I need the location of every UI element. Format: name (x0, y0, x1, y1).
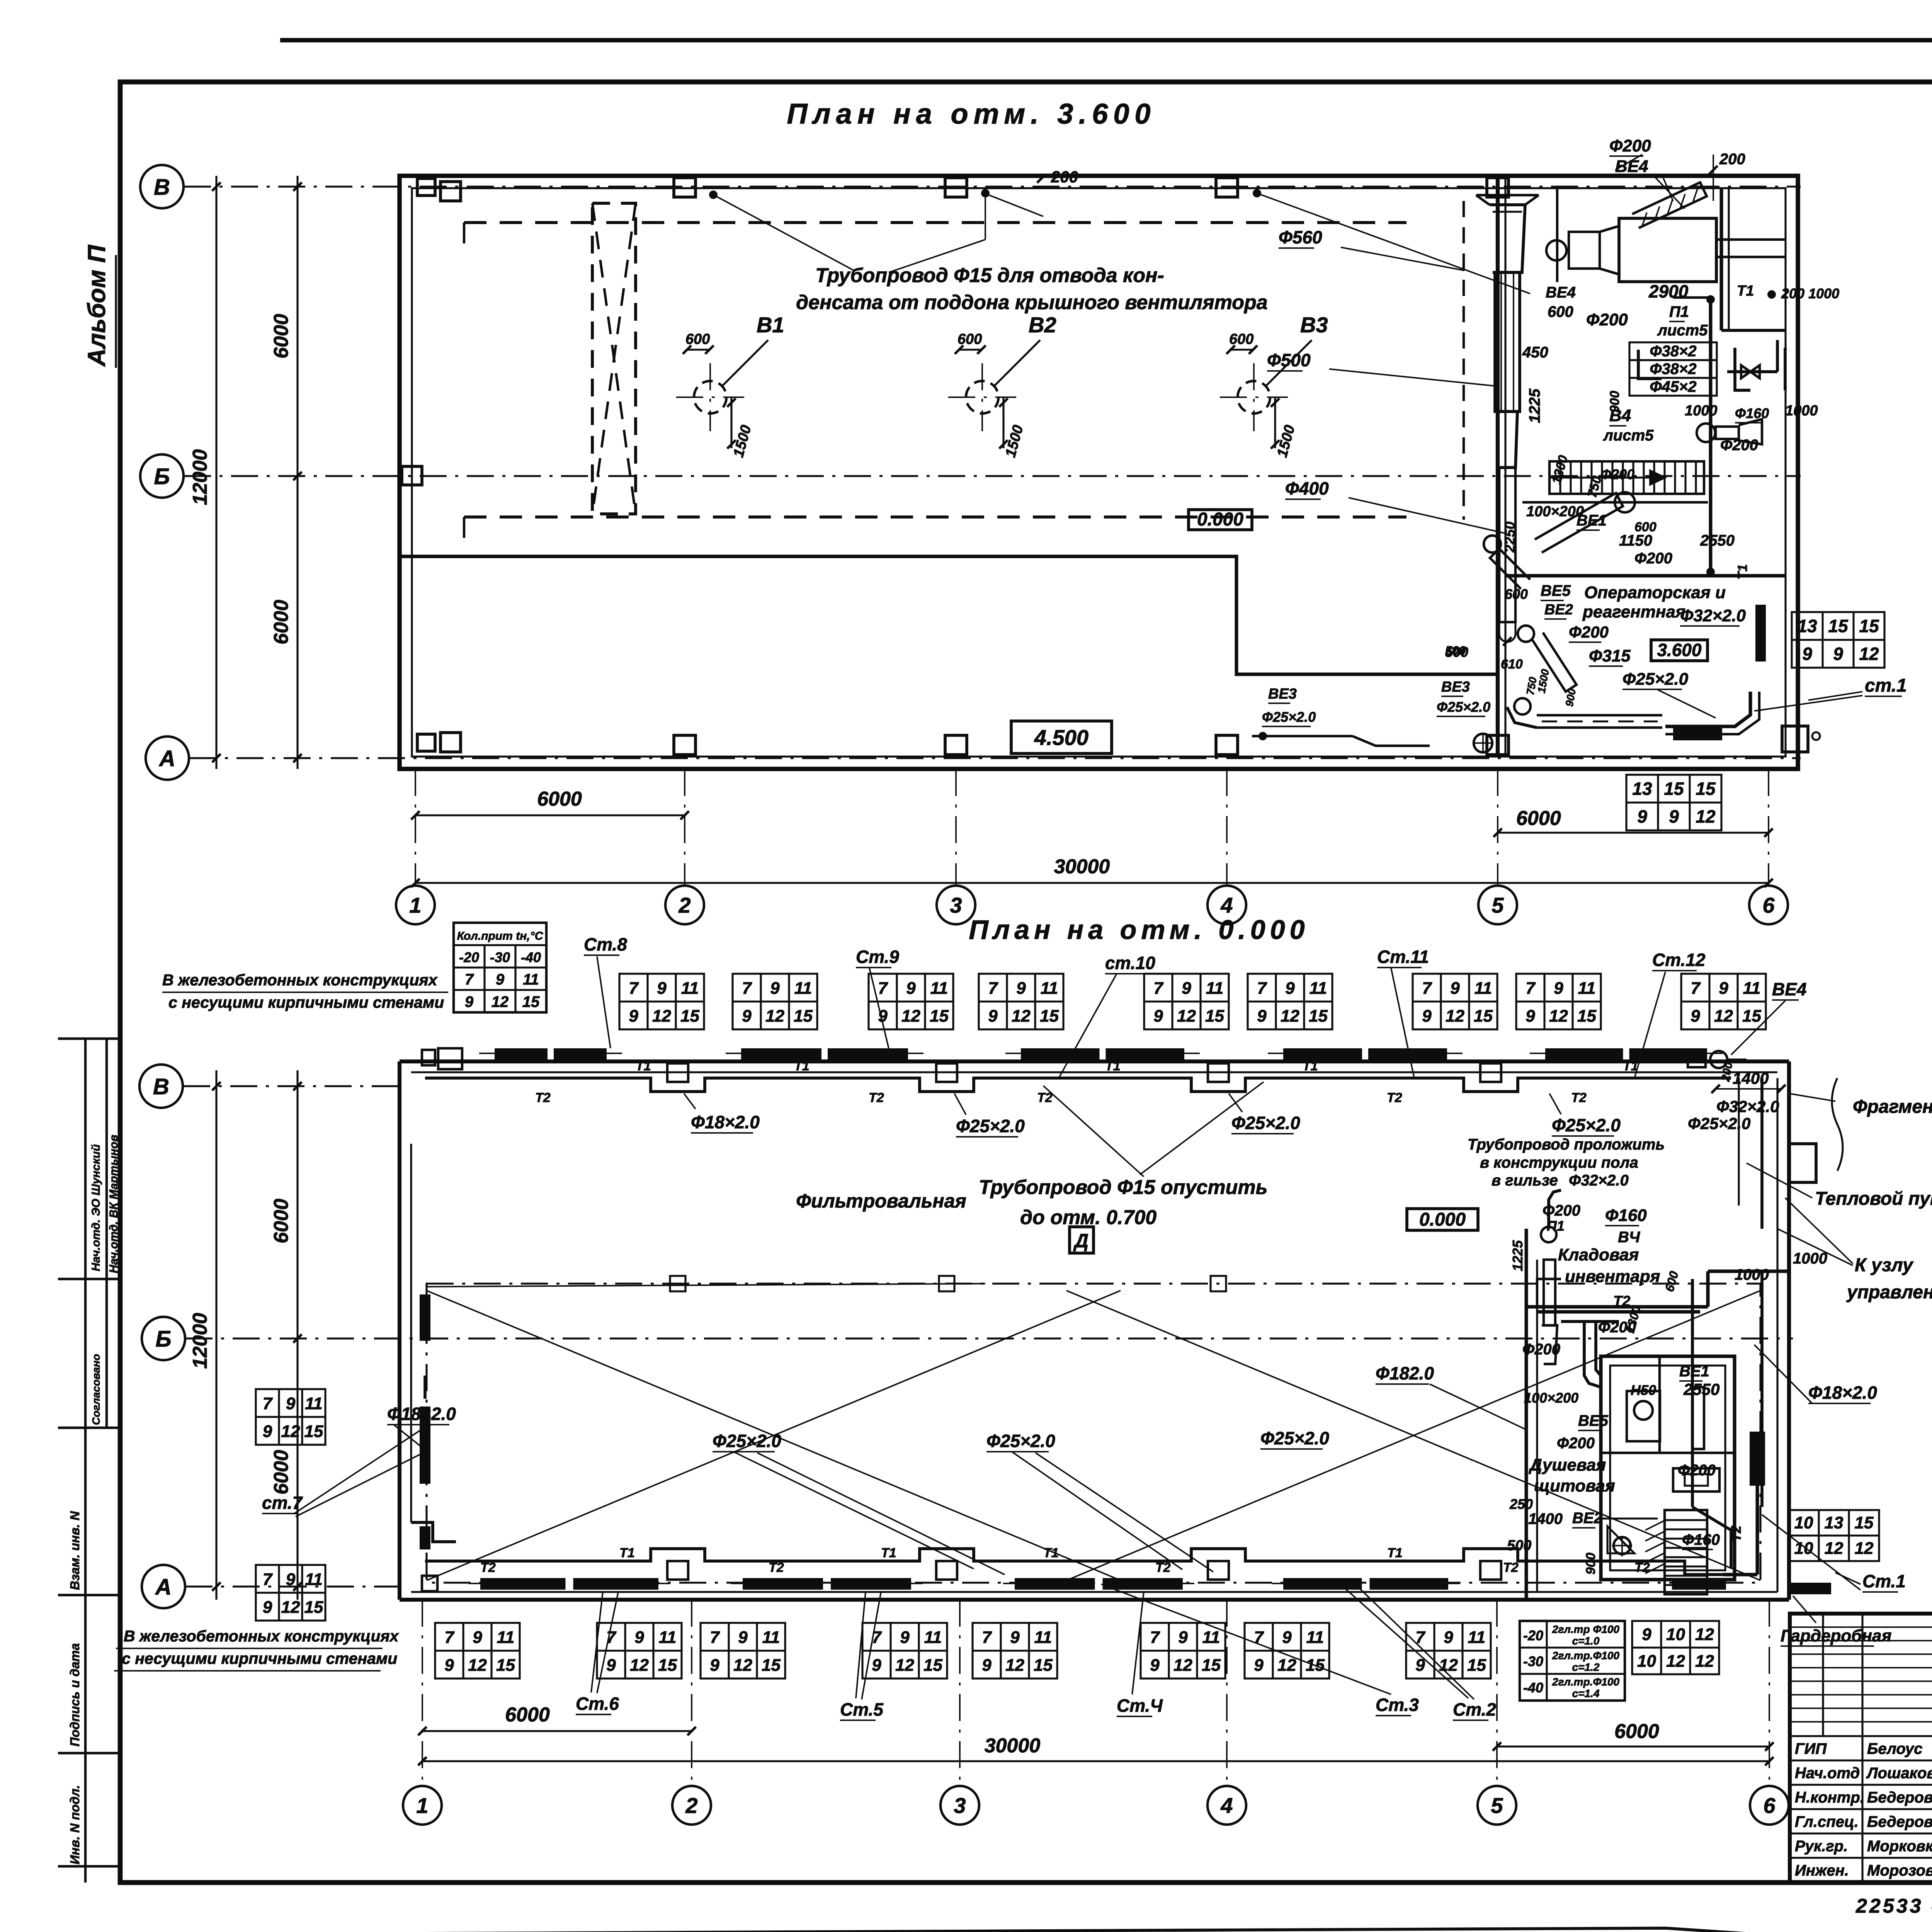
table 7/9/11 left upper (256, 1389, 325, 1445)
svg-text:15: 15 (1855, 1514, 1874, 1532)
svg-text:Инв. N подл.: Инв. N подл. (68, 1785, 82, 1864)
svg-text:Гардеробная: Гардеробная (1781, 1626, 1891, 1645)
leader lines ВЕ4 (top plan) (1654, 176, 1685, 209)
stairs (top plan) (1549, 461, 1704, 494)
svg-text:Т1: Т1 (1387, 1546, 1403, 1560)
svg-text:15: 15 (1828, 616, 1849, 636)
svg-text:15: 15 (496, 1656, 515, 1675)
svg-text:Б: Б (155, 1327, 171, 1352)
svg-text:Согласовано: Согласовано (90, 1354, 102, 1425)
svg-text:11: 11 (1578, 979, 1596, 998)
svg-text:В железобетонных конструкциях: В железобетонных конструкциях (124, 1627, 400, 1645)
svg-text:13: 13 (1797, 616, 1817, 636)
duct dashed line upper (top plan) (464, 221, 1406, 224)
svg-text:15: 15 (923, 1656, 942, 1675)
svg-text:-20: -20 (1523, 1628, 1543, 1643)
svg-text:9: 9 (286, 1394, 296, 1413)
dim 6000 axis5-6 (top plan) (1498, 832, 1769, 833)
svg-text:11: 11 (497, 1628, 515, 1647)
svg-text:Ст.1: Ст.1 (1862, 1571, 1906, 1591)
level box 0.000 (top plan) (1189, 509, 1252, 530)
svg-text:15: 15 (1202, 1656, 1221, 1675)
svg-text:15: 15 (1474, 1007, 1493, 1026)
svg-text:15: 15 (1742, 1007, 1761, 1026)
svg-text:1000: 1000 (1793, 1250, 1827, 1267)
fan ВЕ3 unit and exit pipe (top plan) (1252, 686, 1492, 752)
svg-text:Подпись и дата: Подпись и дата (68, 1643, 82, 1747)
svg-text:Ф200: Ф200 (1634, 550, 1672, 567)
svg-text:Ф160: Ф160 (1735, 405, 1769, 421)
svg-text:9: 9 (1415, 1656, 1425, 1675)
axis Б dash-dot line (top plan) (184, 475, 1801, 477)
svg-text:9: 9 (1178, 1628, 1188, 1647)
svg-text:Т1: Т1 (619, 1546, 635, 1560)
svg-text:5: 5 (1492, 893, 1504, 917)
svg-text:900: 900 (1607, 391, 1622, 413)
svg-text:Ф200: Ф200 (1678, 1462, 1716, 1479)
svg-text:7: 7 (1422, 979, 1432, 998)
column marks row В (bottom plan) (667, 1063, 688, 1082)
svg-text:Т1: Т1 (881, 1546, 896, 1560)
entry corridor shapes (bottom plan top right) (1739, 1078, 1816, 1229)
svg-text:12: 12 (281, 1422, 300, 1441)
svg-text:7: 7 (710, 1628, 720, 1647)
radiators bottom right (bottom plan) (1672, 1578, 1726, 1590)
svg-text:15: 15 (1859, 616, 1879, 636)
svg-text:610: 610 (1501, 657, 1523, 672)
svg-text:-30: -30 (1523, 1653, 1543, 1669)
svg-text:Ф200: Ф200 (1543, 1202, 1580, 1219)
leader lines to condensate note (713, 195, 854, 270)
svg-text:7: 7 (1254, 1628, 1264, 1647)
svg-text:ВЕ4: ВЕ4 (1546, 284, 1576, 301)
svg-text:2гл.тр Ф100: 2гл.тр Ф100 (1552, 1623, 1619, 1635)
svg-text:12: 12 (1173, 1656, 1192, 1675)
svg-text:Ф182.0: Ф182.0 (1376, 1363, 1434, 1383)
svg-text:Инжен.: Инжен. (1795, 1862, 1849, 1879)
svg-text:Ст.5: Ст.5 (840, 1699, 884, 1719)
svg-text:6000: 6000 (505, 1704, 550, 1726)
blower unit П1 (top plan) (1546, 218, 1785, 282)
svg-text:3: 3 (950, 893, 962, 917)
svg-text:30000: 30000 (985, 1735, 1041, 1757)
svg-text:7: 7 (1153, 979, 1164, 998)
svg-text:4.500: 4.500 (1034, 725, 1088, 750)
svg-text:7: 7 (606, 1628, 617, 1647)
svg-text:Нач.отд. ВК Мартынов: Нач.отд. ВК Мартынов (107, 1134, 120, 1273)
svg-text:Ф160: Ф160 (1682, 1531, 1720, 1548)
platform edge below stairs (top plan) (1522, 501, 1708, 503)
svg-text:Д: Д (1073, 1230, 1088, 1252)
svg-text:Ф25×2.0: Ф25×2.0 (1688, 1114, 1750, 1133)
svg-text:ГИП: ГИП (1795, 1740, 1827, 1757)
svg-text:12: 12 (1714, 1007, 1733, 1026)
svg-text:П1: П1 (1669, 303, 1689, 320)
svg-text:2250: 2250 (1502, 522, 1518, 553)
roof fan В2 (948, 313, 1056, 459)
svg-text:12: 12 (1695, 1625, 1714, 1644)
svg-text:11: 11 (1468, 1628, 1486, 1647)
leader dots fragment callout (1789, 1094, 1835, 1101)
svg-text:денсата от поддона крышного ве: денсата от поддона крышного вентилятора (796, 291, 1268, 314)
svg-text:Ст.11: Ст.11 (1377, 947, 1429, 967)
dim chain 6000/6000 (top plan) (296, 176, 298, 769)
svg-text:600: 600 (1229, 331, 1253, 347)
svg-text:450: 450 (1522, 344, 1548, 361)
svg-text:Ф400: Ф400 (1285, 478, 1329, 498)
svg-text:Ф32×2.0: Ф32×2.0 (1716, 1097, 1779, 1116)
svg-text:4: 4 (1220, 1793, 1233, 1818)
row В wall with T1/T2 pipes (bottom plan) (411, 1072, 1777, 1092)
level box 3.600 (1651, 640, 1708, 661)
building outer wall (top plan) (400, 176, 1798, 769)
svg-text:9: 9 (742, 1007, 752, 1026)
svg-text:Морковкина: Морковкина (1867, 1838, 1932, 1855)
machine room inner wall lines (bottom plan) (1537, 1078, 1777, 1592)
boxed labels Ф38х2 Ф38х2 Ф45х2 (1629, 342, 1717, 396)
svg-text:ВЕ4: ВЕ4 (1772, 979, 1806, 999)
svg-text:Ф25×2.0: Ф25×2.0 (713, 1431, 781, 1451)
svg-text:12: 12 (652, 1007, 671, 1026)
axis extension lines (top plan bottom) (415, 769, 416, 886)
svg-text:11: 11 (924, 1628, 942, 1647)
row А wall with T1/T2 pipes (bottom plan) (411, 1549, 1777, 1592)
svg-text:11: 11 (794, 979, 812, 998)
svg-text:с несущими кирпичными стенами: с несущими кирпичными стенами (122, 1650, 397, 1667)
svg-text:7: 7 (742, 979, 752, 998)
svg-text:4: 4 (1220, 893, 1233, 917)
column marks on walls (top plan) (402, 178, 1509, 755)
svg-text:ВЕ3: ВЕ3 (1441, 679, 1470, 695)
operator room wall (top plan) (1505, 574, 1786, 578)
roof fan В3 (1220, 313, 1328, 459)
svg-text:12: 12 (733, 1656, 752, 1675)
svg-text:9: 9 (1526, 1007, 1535, 1026)
svg-text:Лошакова: Лошакова (1866, 1765, 1932, 1782)
valve symbol (top plan pipe) (1741, 365, 1750, 378)
svg-text:ВЧ: ВЧ (1618, 1229, 1640, 1246)
svg-text:Н50: Н50 (1631, 1382, 1656, 1398)
svg-text:9: 9 (606, 1656, 616, 1675)
svg-text:6000: 6000 (537, 788, 582, 810)
axis extension lines (bottom plan) (422, 1600, 423, 1787)
svg-text:Ф200: Ф200 (1600, 466, 1634, 482)
svg-text:9: 9 (1669, 806, 1679, 827)
svg-text:1: 1 (416, 1793, 428, 1818)
svg-text:7: 7 (444, 1628, 455, 1647)
svg-text:Душевая: Душевая (1528, 1456, 1606, 1475)
svg-text:15: 15 (1467, 1656, 1486, 1675)
svg-text:Н.контр.: Н.контр. (1795, 1789, 1864, 1806)
svg-text:2550: 2550 (1683, 1380, 1719, 1398)
radiators row В (bottom plan) (495, 1048, 548, 1060)
svg-text:12: 12 (1277, 1656, 1296, 1675)
svg-text:15: 15 (930, 1007, 949, 1026)
svg-text:В1: В1 (757, 313, 784, 337)
svg-text:9: 9 (1016, 979, 1026, 998)
svg-text:15: 15 (1664, 779, 1684, 799)
svg-text:6: 6 (1763, 1793, 1776, 1818)
svg-text:11: 11 (305, 1570, 323, 1589)
svg-text:9: 9 (1257, 1007, 1267, 1026)
duct dashed line lower (top plan) (464, 515, 1406, 519)
svg-text:К узлу: К узлу (1855, 1255, 1914, 1276)
svg-text:0.000: 0.000 (1197, 509, 1243, 530)
table 9/10/12 (1632, 1621, 1719, 1674)
svg-text:Т1: Т1 (1737, 283, 1754, 299)
tables 7/9/11 row above В wall (619, 974, 704, 1029)
svg-text:11: 11 (1041, 979, 1058, 998)
svg-text:0.000: 0.000 (1419, 1209, 1466, 1230)
svg-text:Нач.отд: Нач.отд (1795, 1765, 1860, 1782)
svg-text:15: 15 (1306, 1656, 1325, 1675)
shower fixtures (bottom plan) (1601, 1387, 1719, 1553)
svg-text:12: 12 (1439, 1656, 1458, 1675)
svg-text:2: 2 (685, 1793, 697, 1818)
svg-text:15: 15 (1696, 779, 1716, 799)
svg-text:9: 9 (1637, 806, 1647, 827)
building outline (bottom plan) (400, 1061, 1789, 1600)
svg-text:9: 9 (738, 1628, 748, 1647)
svg-text:12: 12 (1005, 1656, 1024, 1675)
dim 30000 (top plan) (415, 882, 1769, 884)
svg-text:Т1: Т1 (1043, 1546, 1059, 1560)
svg-text:11: 11 (659, 1628, 677, 1647)
axis А dash-dot (bottom plan) (185, 1585, 402, 1587)
svg-text:9: 9 (1450, 979, 1460, 998)
svg-text:10: 10 (1637, 1652, 1656, 1671)
svg-text:щитовая: щитовая (1534, 1476, 1615, 1495)
svg-text:с=1.2: с=1.2 (1572, 1661, 1600, 1673)
svg-text:12: 12 (468, 1656, 487, 1675)
left margin column lines (84, 1039, 87, 1883)
svg-text:Ф25×2.0: Ф25×2.0 (986, 1431, 1055, 1451)
svg-text:11: 11 (1743, 979, 1761, 998)
svg-text:-20: -20 (459, 949, 479, 965)
svg-text:15: 15 (1034, 1656, 1053, 1675)
svg-text:7: 7 (263, 1394, 273, 1413)
duct shaft Ф560 dashed line (1463, 201, 1465, 520)
stairs (bottom plan) (1645, 1510, 1707, 1594)
svg-text:1000: 1000 (1735, 1266, 1769, 1283)
svg-text:-40: -40 (521, 949, 541, 965)
svg-text:Ст.3: Ст.3 (1376, 1695, 1419, 1715)
svg-text:9: 9 (1150, 1656, 1160, 1675)
table 13/15/15 (below top plan) (1626, 775, 1721, 830)
svg-text:с несущими кирпичными стенами: с несущими кирпичными стенами (168, 993, 444, 1011)
svg-text:В: В (153, 1074, 169, 1099)
dim chain 6000/6000 (bottom plan) (296, 1070, 298, 1600)
svg-text:реагентная: реагентная (1582, 602, 1685, 621)
svg-text:12: 12 (1549, 1007, 1568, 1026)
condensate note leader dots (top plan) (709, 190, 718, 199)
svg-text:11: 11 (930, 979, 948, 998)
svg-text:9: 9 (988, 1007, 998, 1026)
svg-text:Рук.гр.: Рук.гр. (1795, 1838, 1848, 1855)
svg-text:5: 5 (1491, 1793, 1503, 1818)
svg-text:11: 11 (1206, 979, 1224, 998)
svg-text:Бедеров: Бедеров (1867, 1813, 1932, 1830)
svg-text:9: 9 (1802, 644, 1812, 664)
svg-text:ст.1: ст.1 (1865, 675, 1907, 696)
svg-text:В3: В3 (1300, 313, 1328, 337)
svg-text:7: 7 (1257, 979, 1267, 998)
svg-text:Ф25×2.0: Ф25×2.0 (1622, 670, 1689, 689)
building inner wall line (top plan) (412, 188, 1786, 757)
vertical duct П1 (bottom plan) (1541, 1190, 1561, 1364)
svg-text:Взам. инв. N: Взам. инв. N (68, 1511, 82, 1590)
svg-text:Т1: Т1 (794, 1059, 810, 1073)
svg-text:12: 12 (630, 1656, 649, 1675)
svg-text:15: 15 (1577, 1007, 1596, 1026)
svg-text:11: 11 (681, 979, 699, 998)
table 13/15/15 (right of top plan) (1792, 612, 1884, 668)
svg-text:План на отм. 0.000: План на отм. 0.000 (969, 915, 1309, 945)
dashed vent line to Д (427, 1284, 985, 1287)
svg-text:10: 10 (1666, 1625, 1685, 1644)
svg-text:Т2: Т2 (1387, 1090, 1402, 1105)
svg-text:6000: 6000 (270, 314, 293, 359)
svg-text:900: 900 (1583, 1553, 1598, 1575)
svg-text:2гл.тр.Ф100: 2гл.тр.Ф100 (1552, 1650, 1619, 1662)
machine section pipe runs upper (top plan) (1638, 348, 1785, 390)
svg-text:в гильзе: в гильзе (1492, 1172, 1558, 1189)
interior wall 4.500 room (top plan) (400, 556, 1498, 674)
svg-text:Ф200: Ф200 (1522, 1341, 1560, 1358)
svg-text:7: 7 (988, 979, 998, 998)
black corner mark row А left (420, 1526, 430, 1549)
dim 6000 axis5-6 (bottom plan) (1497, 1745, 1769, 1747)
tables 7/9/11 row below А wall (435, 1623, 520, 1679)
svg-text:Т2: Т2 (1503, 1560, 1519, 1575)
svg-text:11: 11 (1202, 1628, 1220, 1647)
svg-text:100×200: 100×200 (1524, 1390, 1578, 1406)
sheet top edge line (280, 38, 1932, 43)
svg-text:12: 12 (1177, 1007, 1196, 1026)
machine section T1 riser pipe (top plan) (1673, 295, 1715, 576)
svg-text:ВЕ3: ВЕ3 (1268, 686, 1297, 702)
T2 pipe top of machine room (bottom plan) (1537, 1279, 1731, 1569)
svg-text:ст.10: ст.10 (1105, 953, 1155, 973)
svg-text:9: 9 (1282, 1628, 1292, 1647)
svg-text:600: 600 (1634, 520, 1656, 534)
svg-text:ВЕ2: ВЕ2 (1544, 602, 1573, 618)
svg-text:9: 9 (444, 1656, 454, 1675)
svg-text:Т2: Т2 (480, 1560, 496, 1575)
svg-text:15: 15 (304, 1422, 323, 1441)
axis column circles 1-6 (top plan) (396, 886, 435, 924)
svg-text:лист5: лист5 (1603, 427, 1654, 444)
svg-text:15: 15 (522, 993, 540, 1010)
dim 6000 axis1-2 (bottom plan) (422, 1730, 692, 1732)
svg-text:9: 9 (657, 979, 667, 998)
svg-text:Бедеров: Бедеров (1867, 1789, 1932, 1806)
roof fan В1 (676, 313, 784, 459)
table 2гл.тр Ф100 (1520, 1621, 1625, 1701)
duct ВЕ4 diagonal (top plan) (1632, 182, 1707, 228)
duct ВЕ1 diagonal (top plan) (1535, 492, 1635, 553)
svg-text:Ф25×2.0: Ф25×2.0 (1262, 709, 1316, 725)
svg-text:9: 9 (465, 993, 474, 1010)
svg-text:Фильтровальная: Фильтровальная (796, 1190, 966, 1212)
svg-text:6000: 6000 (1516, 807, 1561, 830)
svg-text:ВЕ5: ВЕ5 (1541, 582, 1571, 599)
svg-text:13: 13 (1632, 779, 1652, 799)
axis В dash-dot line (top plan) (184, 185, 1801, 187)
svg-text:15: 15 (794, 1007, 813, 1026)
svg-text:11: 11 (762, 1628, 780, 1647)
svg-text:6000: 6000 (270, 600, 293, 645)
svg-text:Ф160: Ф160 (1605, 1206, 1647, 1225)
axis row circle Б (bottom plan) (142, 1317, 185, 1360)
vent unit on wall right top (bottom plan) (1688, 1051, 1747, 1083)
svg-text:9: 9 (872, 1656, 881, 1675)
svg-text:Т1: Т1 (636, 1059, 651, 1073)
svg-text:12: 12 (1695, 1652, 1714, 1671)
axis А dash-dot line (top plan) (189, 757, 1801, 759)
svg-text:9: 9 (263, 1598, 272, 1617)
svg-text:500: 500 (1507, 1537, 1531, 1554)
svg-text:-40: -40 (1523, 1680, 1543, 1696)
svg-text:В железобетонных конструкциях: В железобетонных конструкциях (162, 971, 438, 989)
boxed letter Д (1070, 1227, 1094, 1253)
svg-text:9: 9 (770, 979, 780, 998)
svg-text:250: 250 (1509, 1496, 1533, 1512)
svg-text:Ст.6: Ст.6 (576, 1694, 619, 1714)
svg-text:15: 15 (762, 1656, 781, 1675)
svg-text:ВЕ1: ВЕ1 (1577, 512, 1607, 529)
svg-text:2: 2 (678, 893, 690, 917)
svg-text:Кладовая: Кладовая (1558, 1245, 1639, 1264)
svg-text:7: 7 (465, 971, 474, 988)
svg-text:200: 200 (1719, 151, 1745, 168)
svg-text:12: 12 (1855, 1539, 1874, 1558)
svg-text:Ф25×2.0: Ф25×2.0 (1260, 1428, 1329, 1448)
svg-text:Нач.отд. ЭО Шунский: Нач.отд. ЭО Шунский (90, 1144, 102, 1271)
svg-text:Т1: Т1 (1303, 1059, 1318, 1073)
svg-text:3.600: 3.600 (1657, 640, 1702, 660)
svg-text:9: 9 (1642, 1625, 1651, 1644)
svg-text:Т2: Т2 (1155, 1560, 1171, 1575)
svg-text:Операторская и: Операторская и (1584, 583, 1726, 602)
svg-text:12: 12 (492, 993, 509, 1010)
svg-text:12000: 12000 (189, 1313, 211, 1369)
svg-text:12: 12 (901, 1007, 920, 1026)
svg-text:9: 9 (710, 1656, 719, 1675)
radiators row А (bottom plan) (480, 1578, 566, 1590)
filter hall dash-dot border (427, 1284, 1760, 1583)
svg-text:9: 9 (263, 1422, 272, 1441)
label 0.000 box (bottom plan) (1407, 1209, 1478, 1230)
svg-text:9: 9 (1285, 979, 1295, 998)
filter hall X diagonals (427, 1291, 1121, 1580)
T2 riser black bar (bottom plan) (1750, 1432, 1765, 1486)
svg-text:Ф25×2.0: Ф25×2.0 (1437, 699, 1490, 715)
svg-text:1400: 1400 (1528, 1510, 1563, 1527)
svg-text:2гл.тр.Ф100: 2гл.тр.Ф100 (1552, 1676, 1619, 1688)
machine section upper room walls (top plan) (1557, 188, 1786, 330)
svg-text:6000: 6000 (1614, 1720, 1659, 1743)
svg-text:9: 9 (1254, 1656, 1264, 1675)
machine section divider wall (top plan) (1496, 176, 1500, 757)
svg-text:Ф200: Ф200 (1557, 1435, 1595, 1452)
axis column circles 1-6 (bottom plan) (403, 1786, 442, 1825)
svg-text:1225: 1225 (1510, 1240, 1526, 1271)
svg-text:Трубопровод Ф15 для отвода кон: Трубопровод Ф15 для отвода кон- (815, 264, 1164, 287)
dim chain 12000 (bottom plan) (215, 1070, 217, 1600)
svg-text:30000: 30000 (1054, 855, 1110, 878)
svg-text:11: 11 (1475, 979, 1492, 998)
